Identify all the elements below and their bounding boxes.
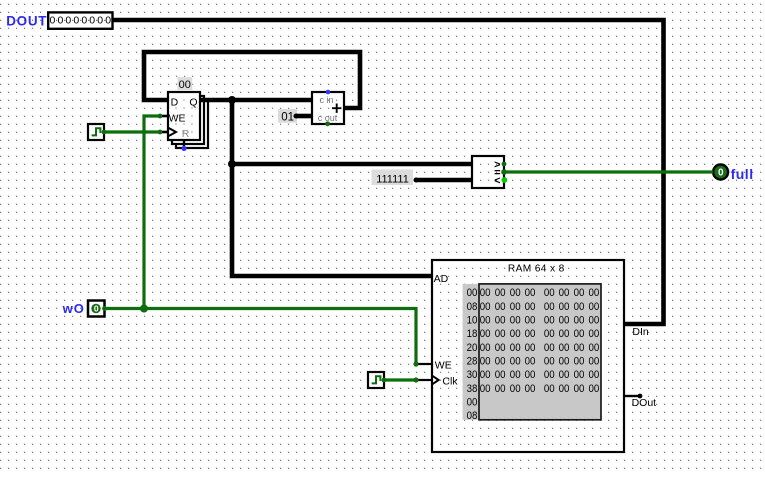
svg-text:00: 00 [510, 301, 521, 313]
constant 111111 [372, 170, 419, 186]
svg-text:01: 01 [281, 112, 294, 124]
RAM U3 64x8 [432, 260, 624, 452]
bus wire Q branch down to RAM AD [232, 100, 432, 276]
svg-text:111111: 111111 [376, 173, 409, 185]
register value label 00 [177, 77, 192, 91]
svg-text:00: 00 [544, 328, 555, 340]
svg-text:00: 00 [559, 301, 570, 313]
svg-text:00: 00 [510, 342, 521, 354]
svg-text:00: 00 [525, 355, 536, 367]
svg-text:00: 00 [510, 287, 521, 299]
svg-text:00: 00 [559, 383, 570, 395]
svg-text:00: 00 [480, 383, 491, 395]
register stack box3 (back) [176, 100, 208, 148]
svg-text:00: 00 [574, 342, 585, 354]
svg-text:00: 00 [510, 355, 521, 367]
svg-text:D: D [171, 96, 179, 108]
svg-text:0: 0 [105, 15, 111, 27]
svg-text:00: 00 [179, 79, 191, 91]
svg-text:<: < [494, 175, 500, 187]
svg-text:00: 00 [559, 355, 570, 367]
svg-text:0: 0 [89, 15, 95, 27]
svg-text:00: 00 [495, 342, 506, 354]
svg-text:00: 00 [480, 315, 491, 327]
svg-text:00: 00 [574, 315, 585, 327]
svg-text:R: R [182, 128, 190, 140]
wire CLK1 to register clock [104, 130, 160, 133]
svg-text:00: 00 [467, 287, 478, 299]
svg-text:00: 00 [574, 301, 585, 313]
svg-text:08: 08 [467, 301, 478, 313]
svg-text:00: 00 [495, 315, 506, 327]
svg-text:DOut: DOut [632, 397, 657, 409]
svg-text:WE: WE [169, 112, 186, 124]
svg-text:00: 00 [544, 342, 555, 354]
svg-text:0: 0 [718, 168, 724, 179]
svg-text:00: 00 [495, 355, 506, 367]
svg-text:20: 20 [467, 342, 478, 354]
svg-text:00: 00 [525, 383, 536, 395]
svg-text:00: 00 [574, 383, 585, 395]
svg-text:00: 00 [589, 342, 600, 354]
svg-text:00: 00 [510, 369, 521, 381]
clock CLK1 [88, 124, 106, 140]
svg-text:00: 00 [480, 287, 491, 299]
svg-text:00: 00 [495, 287, 506, 299]
RAM memory contents [463, 284, 601, 422]
comparator U2 [472, 156, 507, 188]
svg-text:DOUT: DOUT [6, 13, 47, 28]
svg-text:0: 0 [57, 15, 63, 27]
svg-text:0: 0 [81, 15, 87, 27]
constant 01 [278, 109, 299, 124]
svg-text:18: 18 [467, 328, 478, 340]
svg-text:00: 00 [589, 287, 600, 299]
svg-text:DIn: DIn [632, 326, 649, 338]
output pin DOUT (8-bit) [48, 12, 112, 28]
bus wire to comparator A [232, 162, 472, 167]
svg-text:wO: wO [62, 301, 85, 316]
RAM WE pin stub [413, 361, 432, 366]
svg-text:00: 00 [589, 328, 600, 340]
wire wO branch up to register WE [144, 116, 160, 309]
register R1 (front box) [168, 92, 200, 140]
svg-text:00: 00 [525, 369, 536, 381]
svg-text:00: 00 [574, 287, 585, 299]
svg-text:00: 00 [525, 301, 536, 313]
svg-text:00: 00 [559, 369, 570, 381]
svg-text:c in: c in [320, 95, 334, 105]
svg-text:00: 00 [495, 369, 506, 381]
bus wire constant 111111 to comparator B [416, 178, 472, 183]
register clock pin stub [158, 130, 168, 135]
svg-text:00: 00 [544, 301, 555, 313]
label full [731, 166, 754, 182]
svg-text:00: 00 [559, 315, 570, 327]
junction node comparator branch [228, 160, 236, 168]
label DOUT [6, 13, 47, 28]
wire wO to RAM WE [104, 309, 416, 365]
svg-text:00: 00 [544, 355, 555, 367]
svg-text:00: 00 [559, 287, 570, 299]
clock CLK2 [368, 372, 386, 388]
svg-text:00: 00 [589, 355, 600, 367]
svg-text:0: 0 [94, 304, 99, 314]
svg-text:RAM 64 x 8: RAM 64 x 8 [508, 263, 565, 274]
svg-text:0: 0 [97, 15, 103, 27]
svg-text:00: 00 [589, 383, 600, 395]
svg-text:00: 00 [495, 328, 506, 340]
svg-text:00: 00 [525, 315, 536, 327]
svg-text:00: 00 [525, 342, 536, 354]
svg-text:10: 10 [467, 315, 478, 327]
svg-text:WE: WE [435, 360, 452, 372]
svg-text:00: 00 [467, 396, 478, 408]
adder U1 [312, 90, 344, 127]
svg-text:00: 00 [589, 369, 600, 381]
svg-text:00: 00 [574, 355, 585, 367]
svg-text:0: 0 [73, 15, 79, 27]
svg-text:00: 00 [510, 315, 521, 327]
RAM pin DOut (unconnected stub) [624, 394, 656, 409]
register stack box2 (middle) [172, 96, 204, 144]
bus wire constant 01 to adder B [296, 114, 312, 119]
register reset pin stub (floating) [181, 140, 186, 151]
junction node wO branch [140, 305, 148, 313]
svg-text:00: 00 [544, 315, 555, 327]
svg-text:00: 00 [559, 328, 570, 340]
RAM pin label DIn [632, 326, 649, 338]
svg-text:08: 08 [467, 410, 478, 422]
svg-text:00: 00 [480, 355, 491, 367]
wire CLK2 to RAM Clk [384, 378, 416, 381]
svg-text:00: 00 [589, 301, 600, 313]
svg-text:38: 38 [467, 383, 478, 395]
svg-text:00: 00 [525, 328, 536, 340]
bus wire adder sum feedback loop to register D [144, 52, 360, 108]
svg-text:00: 00 [525, 287, 536, 299]
svg-text:00: 00 [559, 342, 570, 354]
svg-text:00: 00 [544, 383, 555, 395]
svg-text:Q: Q [189, 96, 197, 108]
svg-text:00: 00 [574, 369, 585, 381]
svg-text:28: 28 [467, 355, 478, 367]
svg-text:30: 30 [467, 369, 478, 381]
svg-text:00: 00 [589, 315, 600, 327]
svg-text:full: full [731, 166, 754, 182]
svg-text:Clk: Clk [442, 375, 458, 387]
svg-text:00: 00 [495, 301, 506, 313]
svg-text:00: 00 [480, 369, 491, 381]
svg-text:00: 00 [574, 328, 585, 340]
svg-text:00: 00 [480, 328, 491, 340]
register WE pin stub [158, 114, 168, 119]
svg-text:00: 00 [480, 301, 491, 313]
output pin full [713, 165, 728, 180]
svg-text:00: 00 [495, 383, 506, 395]
label wO [62, 301, 85, 316]
svg-text:00: 00 [510, 383, 521, 395]
svg-text:0: 0 [65, 15, 71, 27]
svg-text:00: 00 [544, 369, 555, 381]
svg-text:00: 00 [510, 328, 521, 340]
wire comparator = to full [504, 170, 713, 173]
junction node Q branch [228, 96, 236, 104]
bus wire DOUT to RAM DIn [112, 20, 664, 324]
svg-text:00: 00 [480, 342, 491, 354]
bus wire register Q to adder A [200, 98, 312, 103]
svg-text:00: 00 [544, 287, 555, 299]
input pin wO [88, 301, 107, 317]
svg-text:0: 0 [49, 15, 55, 27]
RAM Clk pin stub [413, 377, 432, 382]
svg-text:AD: AD [434, 273, 449, 285]
